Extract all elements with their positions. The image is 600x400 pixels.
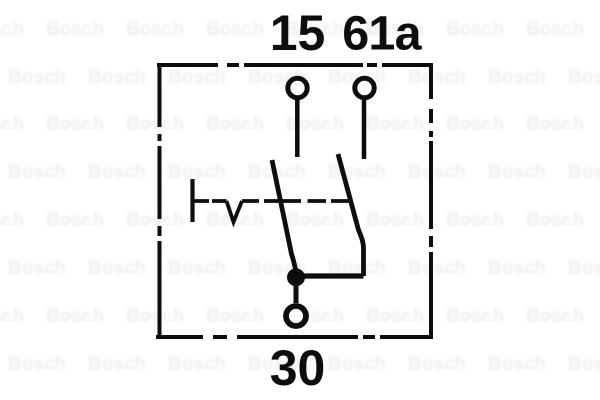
wire from terminal 15 <box>295 100 300 157</box>
svg-text:Bosch: Bosch <box>568 67 600 88</box>
svg-text:Bosch: Bosch <box>0 306 24 327</box>
svg-text:Bosch: Bosch <box>488 258 546 279</box>
svg-text:Bosch: Bosch <box>488 67 546 88</box>
wire junction down to terminal 30 <box>294 284 299 303</box>
svg-text:Bosch: Bosch <box>0 210 24 231</box>
svg-text:Bosch: Bosch <box>126 114 184 135</box>
terminal 30 circle <box>286 306 306 326</box>
svg-text:Bosch: Bosch <box>168 67 226 88</box>
svg-text:Bosch: Bosch <box>526 114 584 135</box>
svg-text:Bosch: Bosch <box>366 114 424 135</box>
svg-text:Bosch: Bosch <box>446 114 504 135</box>
svg-text:Bosch: Bosch <box>88 258 146 279</box>
svg-text:Bosch: Bosch <box>46 306 104 327</box>
svg-text:Bosch: Bosch <box>8 258 66 279</box>
enclosure border bottom (dash-dot) <box>156 335 433 339</box>
switch blade right (contact 61a) <box>338 154 364 276</box>
actuator bar <box>190 179 194 222</box>
svg-text:Bosch: Bosch <box>408 354 466 375</box>
svg-text:Bosch: Bosch <box>526 306 584 327</box>
svg-text:Bosch: Bosch <box>568 162 600 183</box>
svg-text:Bosch: Bosch <box>328 162 386 183</box>
svg-text:Bosch: Bosch <box>286 114 344 135</box>
svg-text:Bosch: Bosch <box>126 19 184 40</box>
svg-text:Bosch: Bosch <box>526 19 584 40</box>
svg-text:Bosch: Bosch <box>168 258 226 279</box>
svg-text:Bosch: Bosch <box>168 162 226 183</box>
enclosure border top (dash-dot) <box>157 63 433 67</box>
svg-text:Bosch: Bosch <box>446 306 504 327</box>
wire from terminal 61a <box>362 100 367 159</box>
svg-text:Bosch: Bosch <box>8 162 66 183</box>
svg-text:Bosch: Bosch <box>206 114 264 135</box>
svg-text:Bosch: Bosch <box>206 306 264 327</box>
svg-text:Bosch: Bosch <box>88 162 146 183</box>
svg-text:Bosch: Bosch <box>126 210 184 231</box>
svg-text:30: 30 <box>270 340 326 396</box>
svg-text:Bosch: Bosch <box>8 354 66 375</box>
svg-text:Bosch: Bosch <box>526 210 584 231</box>
terminal 61a circle <box>355 78 374 97</box>
svg-text:Bosch: Bosch <box>446 19 504 40</box>
svg-text:Bosch: Bosch <box>328 354 386 375</box>
actuator dashed linkage with detent notch <box>194 201 350 222</box>
svg-text:Bosch: Bosch <box>8 67 66 88</box>
svg-text:Bosch: Bosch <box>408 67 466 88</box>
svg-text:Bosch: Bosch <box>88 67 146 88</box>
svg-text:Bosch: Bosch <box>0 114 24 135</box>
svg-text:Bosch: Bosch <box>488 354 546 375</box>
svg-text:Bosch: Bosch <box>206 19 264 40</box>
enclosure border right (dash-dot) <box>429 63 433 339</box>
switch blade left (contact 15) <box>272 160 296 272</box>
terminal 15 circle <box>288 78 307 97</box>
svg-text:Bosch: Bosch <box>408 162 466 183</box>
svg-text:Bosch: Bosch <box>446 210 504 231</box>
svg-text:Bosch: Bosch <box>568 258 600 279</box>
wire junction to right riser <box>296 273 364 278</box>
svg-text:Bosch: Bosch <box>488 162 546 183</box>
svg-text:Bosch: Bosch <box>286 210 344 231</box>
svg-text:Bosch: Bosch <box>168 354 226 375</box>
svg-text:Bosch: Bosch <box>366 210 424 231</box>
svg-text:Bosch: Bosch <box>46 114 104 135</box>
svg-text:Bosch: Bosch <box>126 306 184 327</box>
svg-text:Bosch: Bosch <box>46 19 104 40</box>
svg-text:Bosch: Bosch <box>366 306 424 327</box>
svg-text:61a: 61a <box>342 7 422 61</box>
svg-text:15: 15 <box>270 5 326 61</box>
enclosure border left (dash-dot) <box>158 63 162 339</box>
svg-text:Bosch: Bosch <box>408 258 466 279</box>
svg-text:Bosch: Bosch <box>0 19 24 40</box>
svg-text:Bosch: Bosch <box>88 354 146 375</box>
svg-text:Bosch: Bosch <box>568 354 600 375</box>
svg-text:Bosch: Bosch <box>46 210 104 231</box>
junction node (common) <box>287 268 305 286</box>
